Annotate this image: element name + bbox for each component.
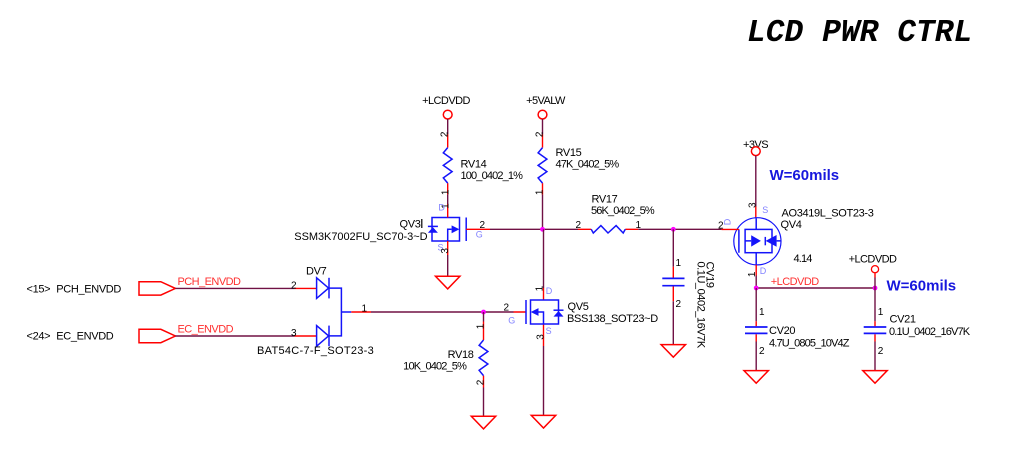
svg-text:2: 2 xyxy=(476,379,487,385)
wire QV5 source to ground xyxy=(543,346,545,415)
wire DV7 to QV5 gate xyxy=(371,311,514,313)
svg-text:SSM3K7002FU_SC70-3~D: SSM3K7002FU_SC70-3~D xyxy=(294,231,427,243)
capacitor CV21 xyxy=(864,288,971,371)
svg-text:2: 2 xyxy=(504,303,510,314)
svg-text:RV14: RV14 xyxy=(461,158,487,170)
svg-text:1: 1 xyxy=(476,323,487,329)
svg-text:1: 1 xyxy=(534,189,545,195)
ground QV3 xyxy=(436,276,460,289)
transistor QV5 xyxy=(504,229,659,346)
svg-text:W=60mils: W=60mils xyxy=(770,167,840,184)
svg-text:1: 1 xyxy=(676,258,682,269)
resistor RV15 xyxy=(534,131,619,195)
node EC_ENVDD input xyxy=(27,331,114,343)
net +LCDVDD wire xyxy=(756,276,875,289)
svg-text:1: 1 xyxy=(535,285,546,291)
capacitor CV19 xyxy=(662,229,715,349)
svg-text:2: 2 xyxy=(534,131,545,137)
svg-text:0.1U_0402_16V7K: 0.1U_0402_16V7K xyxy=(695,262,707,349)
svg-text:PCH_ENVDD: PCH_ENVDD xyxy=(56,284,121,296)
svg-text:S: S xyxy=(762,205,768,215)
connector PCH_ENVDD xyxy=(139,282,175,295)
svg-text:<15>: <15> xyxy=(27,284,51,296)
connector EC_ENVDD xyxy=(139,329,175,342)
junction CV21 node xyxy=(873,286,878,291)
svg-text:+LCDVDD: +LCDVDD xyxy=(849,253,897,265)
svg-text:D: D xyxy=(760,266,767,276)
ground QV5 xyxy=(531,415,555,428)
svg-text:EC_ENVDD: EC_ENVDD xyxy=(56,331,114,343)
svg-text:56K_0402_5%: 56K_0402_5% xyxy=(591,205,655,217)
svg-text:QV4: QV4 xyxy=(781,219,802,231)
junction QV4 drain node xyxy=(754,286,759,291)
svg-text:EC_ENVDD: EC_ENVDD xyxy=(178,323,234,335)
svg-text:4.14: 4.14 xyxy=(794,253,813,265)
svg-text:BSS138_SOT23~D: BSS138_SOT23~D xyxy=(567,313,658,325)
svg-text:<24>: <24> xyxy=(27,331,51,343)
power +3VS terminal xyxy=(743,139,768,156)
svg-text:1: 1 xyxy=(440,189,451,195)
svg-text:2: 2 xyxy=(291,281,297,292)
transistor QV4 xyxy=(718,202,874,277)
ground CV20 xyxy=(744,371,768,384)
resistor RV18 xyxy=(403,312,488,416)
svg-text:1: 1 xyxy=(759,307,765,318)
capacitor CV20 xyxy=(745,288,850,371)
svg-text:D: D xyxy=(438,202,445,212)
svg-text:2: 2 xyxy=(878,346,884,357)
wire RV17 to node xyxy=(638,228,721,230)
svg-text:3: 3 xyxy=(748,202,759,208)
svg-text:D: D xyxy=(722,218,732,225)
wire +5VALW to RV15 xyxy=(542,119,544,134)
wire QV3 gate to bus / node xyxy=(490,228,578,230)
svg-text:QV5: QV5 xyxy=(568,301,589,313)
svg-text:1: 1 xyxy=(878,307,884,318)
wire +3VS to QV4 source xyxy=(755,156,757,207)
svg-text:10K_0402_5%: 10K_0402_5% xyxy=(403,361,467,373)
svg-text:47K_0402_5%: 47K_0402_5% xyxy=(556,158,620,170)
svg-text:2: 2 xyxy=(576,220,582,231)
svg-text:DV7: DV7 xyxy=(306,266,327,278)
power +LCDVDD terminal xyxy=(422,95,470,119)
svg-text:PCH_ENVDD: PCH_ENVDD xyxy=(178,276,242,288)
svg-text:G: G xyxy=(476,229,483,239)
svg-text:+LCDVDD: +LCDVDD xyxy=(422,95,470,107)
svg-text:QV3: QV3 xyxy=(400,219,421,231)
svg-text:100_0402_1%: 100_0402_1% xyxy=(461,170,524,182)
svg-text:+3VS: +3VS xyxy=(743,139,768,151)
wire QV3 source to ground xyxy=(447,255,449,276)
svg-text:RV18: RV18 xyxy=(448,349,474,361)
junction RV18 node xyxy=(481,310,486,315)
svg-text:2: 2 xyxy=(440,131,451,137)
resistor RV14 xyxy=(440,131,524,195)
svg-text:AO3419L_SOT23-3: AO3419L_SOT23-3 xyxy=(782,207,874,219)
svg-text:BAT54C-7-F_SOT23-3: BAT54C-7-F_SOT23-3 xyxy=(257,345,374,357)
wire PCH_ENVDD to DV7 xyxy=(175,287,294,289)
node PCH_ENVDD input xyxy=(27,284,122,296)
svg-text:+LCDVDD: +LCDVDD xyxy=(771,276,819,288)
wire +LCDVDD to RV14 xyxy=(447,119,449,134)
svg-text:3: 3 xyxy=(440,248,451,254)
svg-text:+5VALW: +5VALW xyxy=(526,95,566,107)
ground CV19 xyxy=(661,345,685,358)
diode DV7 xyxy=(257,266,374,358)
power +5VALW terminal xyxy=(526,95,566,119)
power +LCDVDD terminal right xyxy=(849,253,897,288)
svg-text:2: 2 xyxy=(759,346,765,357)
svg-text:RV17: RV17 xyxy=(592,194,618,206)
svg-text:CV21: CV21 xyxy=(890,314,916,326)
svg-text:LCD PWR CTRL: LCD PWR CTRL xyxy=(747,16,972,51)
svg-text:4.7U_0805_10V4Z: 4.7U_0805_10V4Z xyxy=(769,338,850,350)
wire RV15 to bus xyxy=(542,195,544,230)
wire EC_ENVDD to DV7 xyxy=(175,335,294,337)
svg-text:G: G xyxy=(508,315,515,325)
svg-text:3: 3 xyxy=(291,328,297,339)
svg-text:W=60mils: W=60mils xyxy=(887,278,957,295)
svg-text:1: 1 xyxy=(362,303,368,314)
transistor QV3 xyxy=(294,202,490,255)
svg-text:3: 3 xyxy=(536,334,547,340)
svg-text:0.1U_0402_16V7K: 0.1U_0402_16V7K xyxy=(889,326,971,338)
junction at RV15/bus xyxy=(540,227,545,232)
svg-text:D: D xyxy=(546,286,553,296)
svg-text:CV20: CV20 xyxy=(769,325,795,337)
resistor RV17 xyxy=(576,194,655,233)
wire RV14 to QV3 drain xyxy=(447,195,449,204)
ground RV18 xyxy=(471,416,495,429)
junction at CV19 node xyxy=(671,227,676,232)
svg-text:2: 2 xyxy=(676,299,682,310)
ground CV21 xyxy=(863,371,887,384)
svg-text:RV15: RV15 xyxy=(556,147,582,159)
